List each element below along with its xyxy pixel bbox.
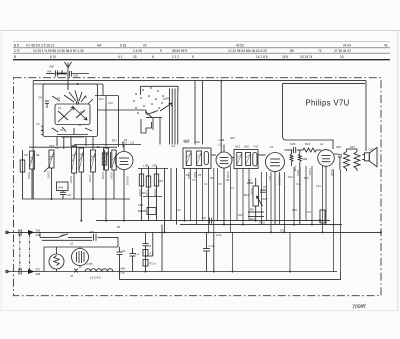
svg-text:9.3o: 9.3o — [216, 233, 222, 237]
svg-text:R10: R10 — [238, 213, 243, 217]
svg-text:L10: L10 — [60, 233, 65, 237]
svg-text:18 9: 18 9 — [282, 55, 288, 59]
svg-text:C2: C2 — [58, 106, 62, 110]
svg-text:C12: C12 — [316, 184, 321, 188]
svg-text:14 1 8 8: 14 1 8 8 — [256, 55, 268, 59]
svg-text:4700: 4700 — [145, 190, 149, 196]
svg-text:C6: C6 — [263, 185, 267, 189]
svg-text:25000: 25000 — [27, 172, 31, 180]
svg-text:C15: C15 — [158, 179, 164, 183]
svg-text:R14: R14 — [305, 142, 311, 146]
svg-text:1.2: 1.2 — [135, 252, 139, 256]
svg-text:AM: AM — [50, 64, 55, 68]
svg-text:S11: S11 — [230, 136, 235, 140]
svg-text:B: B — [14, 55, 16, 59]
svg-text:C92: C92 — [73, 73, 79, 77]
svg-text:S17: S17 — [350, 145, 355, 149]
svg-text:R6: R6 — [210, 176, 214, 180]
svg-text:89: 89 — [290, 49, 294, 53]
svg-text:C5: C5 — [218, 182, 222, 186]
svg-text:S3: S3 — [60, 128, 64, 132]
svg-text:C3: C3 — [80, 110, 84, 114]
svg-text:R13: R13 — [304, 176, 309, 180]
svg-text:S4: S4 — [78, 123, 82, 127]
svg-text:L5: L5 — [219, 143, 223, 147]
svg-text:8 10: 8 10 — [50, 55, 56, 59]
svg-text:24 04: 24 04 — [343, 43, 351, 47]
svg-text:C25: C25 — [290, 142, 296, 146]
svg-text:C4: C4 — [148, 244, 152, 248]
svg-text:R1: R1 — [117, 225, 121, 229]
svg-text:10000: 10000 — [47, 171, 51, 179]
svg-text:gS45: gS45 — [183, 139, 190, 143]
svg-text:C1: C1 — [122, 249, 126, 253]
svg-text:S13: S13 — [235, 145, 240, 149]
svg-text:L5: L5 — [70, 242, 74, 246]
svg-text:R8: R8 — [226, 178, 230, 182]
svg-text:C R: C R — [14, 49, 20, 53]
svg-text:50000: 50000 — [250, 188, 254, 196]
svg-text:R17: R17 — [112, 139, 118, 143]
svg-text:RA: RA — [48, 69, 52, 73]
svg-text:S1: S1 — [57, 96, 61, 100]
svg-text:8200: 8200 — [296, 170, 300, 176]
svg-text:18: 18 — [340, 55, 344, 59]
svg-text:+145: +145 — [218, 138, 225, 142]
svg-text:R17: R17 — [263, 197, 269, 201]
svg-text:UCH81: UCH81 — [126, 176, 130, 186]
svg-text:R7: R7 — [248, 179, 252, 183]
svg-text:FM: FM — [24, 153, 28, 157]
svg-text:R5: R5 — [198, 173, 202, 177]
svg-text:Philips V7U: Philips V7U — [306, 99, 350, 108]
svg-text:9 16: 9 16 — [120, 44, 126, 48]
svg-text:gS45: gS45 — [163, 97, 170, 101]
svg-text:R17: R17 — [99, 97, 104, 101]
svg-text:42: 42 — [384, 43, 388, 47]
svg-text:R 2 o: R 2 o — [150, 262, 157, 266]
svg-text:22000: 22000 — [138, 189, 142, 197]
svg-text:2 1 2: 2 1 2 — [172, 55, 179, 59]
svg-text:S6: S6 — [36, 153, 40, 157]
svg-text:348: 348 — [36, 272, 41, 276]
svg-text:C9: C9 — [280, 229, 284, 233]
svg-text:42 52: 42 52 — [236, 43, 244, 47]
svg-text:L4: L4 — [320, 142, 324, 146]
svg-text:L14: L14 — [171, 144, 176, 148]
svg-text:12 42 98 54 52k 06 62 6 20: 12 42 98 54 52k 06 62 6 20 — [228, 49, 267, 53]
svg-text:S9: S9 — [97, 145, 101, 149]
svg-text:C11: C11 — [296, 182, 301, 186]
svg-text:7+8: 7+8 — [253, 145, 258, 149]
svg-text:47 38 44 22: 47 38 44 22 — [334, 49, 351, 53]
svg-text:C3: C3 — [192, 178, 196, 182]
svg-text:5: 5 — [192, 55, 194, 59]
svg-text:50000: 50000 — [69, 176, 73, 184]
svg-text:L7B: L7B — [143, 164, 148, 168]
svg-text:18 15 74: 18 15 74 — [300, 55, 313, 59]
svg-text:08 66 69 9: 08 66 69 9 — [172, 49, 187, 53]
svg-text:C10: C10 — [122, 141, 127, 145]
svg-text:1/4A: 1/4A — [58, 186, 64, 190]
svg-text:C 40: C 40 — [209, 244, 215, 248]
svg-text:R9: R9 — [250, 208, 254, 212]
svg-text:CA: CA — [38, 96, 42, 100]
svg-text:R16: R16 — [244, 193, 250, 197]
svg-text:L11: L11 — [130, 141, 135, 145]
svg-text:S2: S2 — [84, 95, 88, 99]
svg-text:10000: 10000 — [101, 172, 105, 180]
svg-text:20: 20 — [143, 44, 147, 48]
svg-text:B 5: B 5 — [14, 44, 19, 48]
svg-text:10000: 10000 — [153, 189, 157, 197]
svg-text:4 5: 4 5 — [150, 252, 154, 256]
svg-text:UL84: UL84 — [330, 169, 334, 176]
svg-text:R18: R18 — [292, 208, 297, 212]
svg-text:2 4 06: 2 4 06 — [133, 49, 142, 53]
svg-text:74: 74 — [318, 49, 322, 53]
svg-text:R12: R12 — [288, 175, 293, 179]
svg-text:50000: 50000 — [110, 172, 114, 180]
svg-text:S12: S12 — [195, 140, 200, 144]
svg-text:25000: 25000 — [88, 175, 92, 183]
svg-text:L4A: L4A — [67, 193, 72, 197]
svg-text:L8: L8 — [56, 146, 60, 150]
svg-text:4,7 68 2½ 3 5 16 10: 4,7 68 2½ 3 5 16 10 — [26, 44, 55, 48]
svg-text:9: 9 — [160, 49, 162, 53]
svg-text:R2: R2 — [186, 173, 190, 177]
svg-text:10 25 1 ½ 99 86 24 36 38 8 90: 10 25 1 ½ 99 86 24 36 38 8 90 1,25 — [33, 49, 84, 53]
svg-text:UF89: UF89 — [226, 171, 230, 178]
svg-text:C47: C47 — [369, 148, 375, 152]
svg-text:S10: S10 — [244, 145, 249, 149]
svg-text:C20: C20 — [108, 101, 113, 105]
svg-text:L6: L6 — [70, 274, 74, 278]
svg-text:UY85: UY85 — [86, 262, 93, 266]
svg-text:L1-2-4-5: L1-2-4-5 — [90, 276, 101, 280]
svg-text:4 1: 4 1 — [118, 55, 123, 59]
svg-text:15: 15 — [133, 55, 137, 59]
svg-text:C4: C4 — [204, 182, 208, 186]
svg-text:S1B: S1B — [302, 157, 307, 161]
svg-text:C13: C13 — [306, 210, 311, 214]
svg-text:6: 6 — [152, 55, 154, 59]
svg-text:L2: L2 — [37, 122, 41, 126]
svg-text:709ℓℓℓ: 709ℓℓℓ — [352, 304, 366, 311]
svg-text:S14: S14 — [138, 203, 143, 207]
svg-text:C14: C14 — [176, 208, 181, 212]
svg-text:UABC80: UABC80 — [278, 174, 282, 186]
svg-text:8200: 8200 — [193, 172, 197, 178]
svg-text:L3: L3 — [270, 145, 274, 149]
svg-text:S16: S16 — [336, 145, 341, 149]
svg-text:21000: 21000 — [308, 168, 312, 176]
svg-text:C7: C7 — [231, 186, 235, 190]
svg-text:100: 100 — [268, 176, 272, 181]
svg-text:R11b: R11b — [259, 221, 266, 225]
svg-text:J30: J30 — [152, 164, 157, 168]
